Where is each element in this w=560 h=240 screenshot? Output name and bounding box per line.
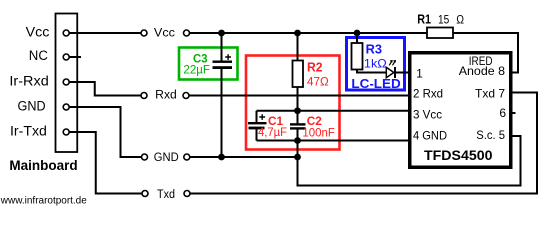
- junction pin4 line/C2: [294, 137, 301, 144]
- svg-text:GND: GND: [154, 152, 179, 164]
- svg-text:S.c. 5: S.c. 5: [476, 128, 505, 142]
- svg-text:www.infrarotport.de: www.infrarotport.de: [0, 196, 87, 207]
- node Rxd right: [183, 93, 189, 99]
- resistor R1 body: [427, 28, 453, 39]
- svg-text:Txd: Txd: [157, 189, 175, 201]
- svg-text:22µF: 22µF: [183, 62, 210, 76]
- node Rxd left: [141, 93, 147, 99]
- svg-text:2 Rxd: 2 Rxd: [413, 87, 443, 101]
- svg-text:Ir-Rxd: Ir-Rxd: [9, 74, 48, 89]
- node Txd right: [184, 191, 190, 197]
- IC U1 TFDS4500 box: [410, 53, 511, 168]
- wire Txd line to IC pin 7: [191, 93, 538, 194]
- node GND left: [142, 154, 148, 160]
- svg-text:TFDS4500: TFDS4500: [424, 147, 493, 163]
- LED arrows: [389, 61, 392, 66]
- svg-text:R1: R1: [417, 11, 431, 26]
- wire C3 top lead: [221, 33, 223, 61]
- svg-text:6: 6: [499, 106, 506, 120]
- wire GND pin to GND node: [69, 107, 141, 157]
- green box around C3: [179, 48, 238, 80]
- red box around R2 C1 C2: [246, 56, 340, 150]
- capacitor C2 plates: [290, 123, 306, 125]
- resistor R3 body: [352, 43, 363, 70]
- mainboard pin Ir-Txd: [63, 129, 69, 135]
- wire C1 bottom lead: [256, 129, 258, 141]
- wire R2 top lead: [297, 33, 299, 61]
- wire C2 bottom to S.c. return: [298, 130, 521, 186]
- svg-text:Mainboard: Mainboard: [9, 157, 77, 173]
- wire Vcc pin to Vcc node: [69, 32, 141, 34]
- svg-text:100nF: 100nF: [302, 127, 335, 139]
- node Txd left: [142, 191, 148, 197]
- svg-text:R3: R3: [366, 41, 382, 56]
- svg-text:Vcc: Vcc: [26, 24, 50, 39]
- capacitor C3 plates: [213, 61, 233, 63]
- wire C3 bottom lead: [221, 69, 223, 157]
- capacitor C3 plus: [225, 54, 231, 60]
- svg-text:Txd 7: Txd 7: [475, 86, 505, 100]
- wire GND rail: [190, 156, 297, 158]
- svg-text:1kΩ: 1kΩ: [364, 57, 387, 71]
- svg-text:GND: GND: [18, 98, 46, 113]
- capacitor C1 plus: [259, 114, 265, 120]
- blue box around R3 LED: [347, 38, 405, 91]
- svg-text:3 Vcc: 3 Vcc: [413, 108, 442, 122]
- wire NC stub: [69, 56, 81, 58]
- junction Vcc/R3: [354, 30, 361, 37]
- mainboard pin Ir-Rxd: [63, 79, 69, 85]
- wire R3 bottom to LED anode: [357, 70, 386, 73]
- mainboard connector box: [56, 14, 78, 153]
- wire LED cathode to IC pin 1: [396, 72, 410, 74]
- mainboard pin Vcc: [63, 30, 69, 36]
- wire Ir-Txd pin to Txd node: [69, 132, 141, 194]
- mainboard pin NC: [63, 54, 69, 60]
- junction GND/C3: [218, 154, 225, 161]
- wire Vcc mid rail to IC pin 3: [257, 110, 410, 112]
- wire R2 bottom lead to rail to C2: [297, 87, 299, 124]
- wire C1 top lead: [256, 111, 258, 122]
- svg-text:R2: R2: [307, 60, 323, 75]
- junction rail/R2: [294, 107, 301, 114]
- svg-text:1: 1: [416, 66, 423, 80]
- junction Vcc/C3: [218, 30, 225, 37]
- svg-text:4,7µF: 4,7µF: [258, 125, 287, 139]
- svg-text:Vcc: Vcc: [154, 28, 175, 40]
- junction Vcc/R2: [294, 30, 301, 37]
- svg-text:47Ω: 47Ω: [307, 75, 329, 89]
- wire Ir-Rxd pin to Rxd node: [69, 82, 141, 96]
- LED cathode bar: [394, 67, 396, 78]
- svg-text:Ω: Ω: [456, 12, 464, 26]
- wire R3 top lead: [356, 33, 358, 44]
- resistor R2 body: [293, 61, 304, 88]
- wire Vcc rail to R1 to pin 8: [190, 33, 518, 73]
- svg-text:C2: C2: [307, 114, 322, 128]
- node Vcc right: [184, 30, 190, 36]
- svg-text:Ir-Txd: Ir-Txd: [10, 124, 47, 139]
- svg-text:15: 15: [438, 12, 449, 26]
- wire IC pin 6 stub: [511, 112, 516, 114]
- svg-text:4 GND: 4 GND: [413, 129, 447, 143]
- svg-text:LC-LED: LC-LED: [351, 76, 400, 91]
- capacitor C1 plates: [248, 122, 267, 124]
- node GND right: [184, 154, 190, 160]
- wire GND line to IC pin 4: [257, 140, 410, 142]
- svg-text:NC: NC: [29, 48, 48, 63]
- node Vcc left: [141, 30, 147, 36]
- junction GND/C2: [294, 154, 301, 161]
- mainboard pin GND: [63, 104, 69, 110]
- svg-text:Anode 8: Anode 8: [459, 64, 506, 78]
- LED diode triangle: [386, 67, 394, 77]
- svg-text:Rxd: Rxd: [155, 90, 177, 102]
- wire Rxd line to IC pin 2: [190, 95, 410, 97]
